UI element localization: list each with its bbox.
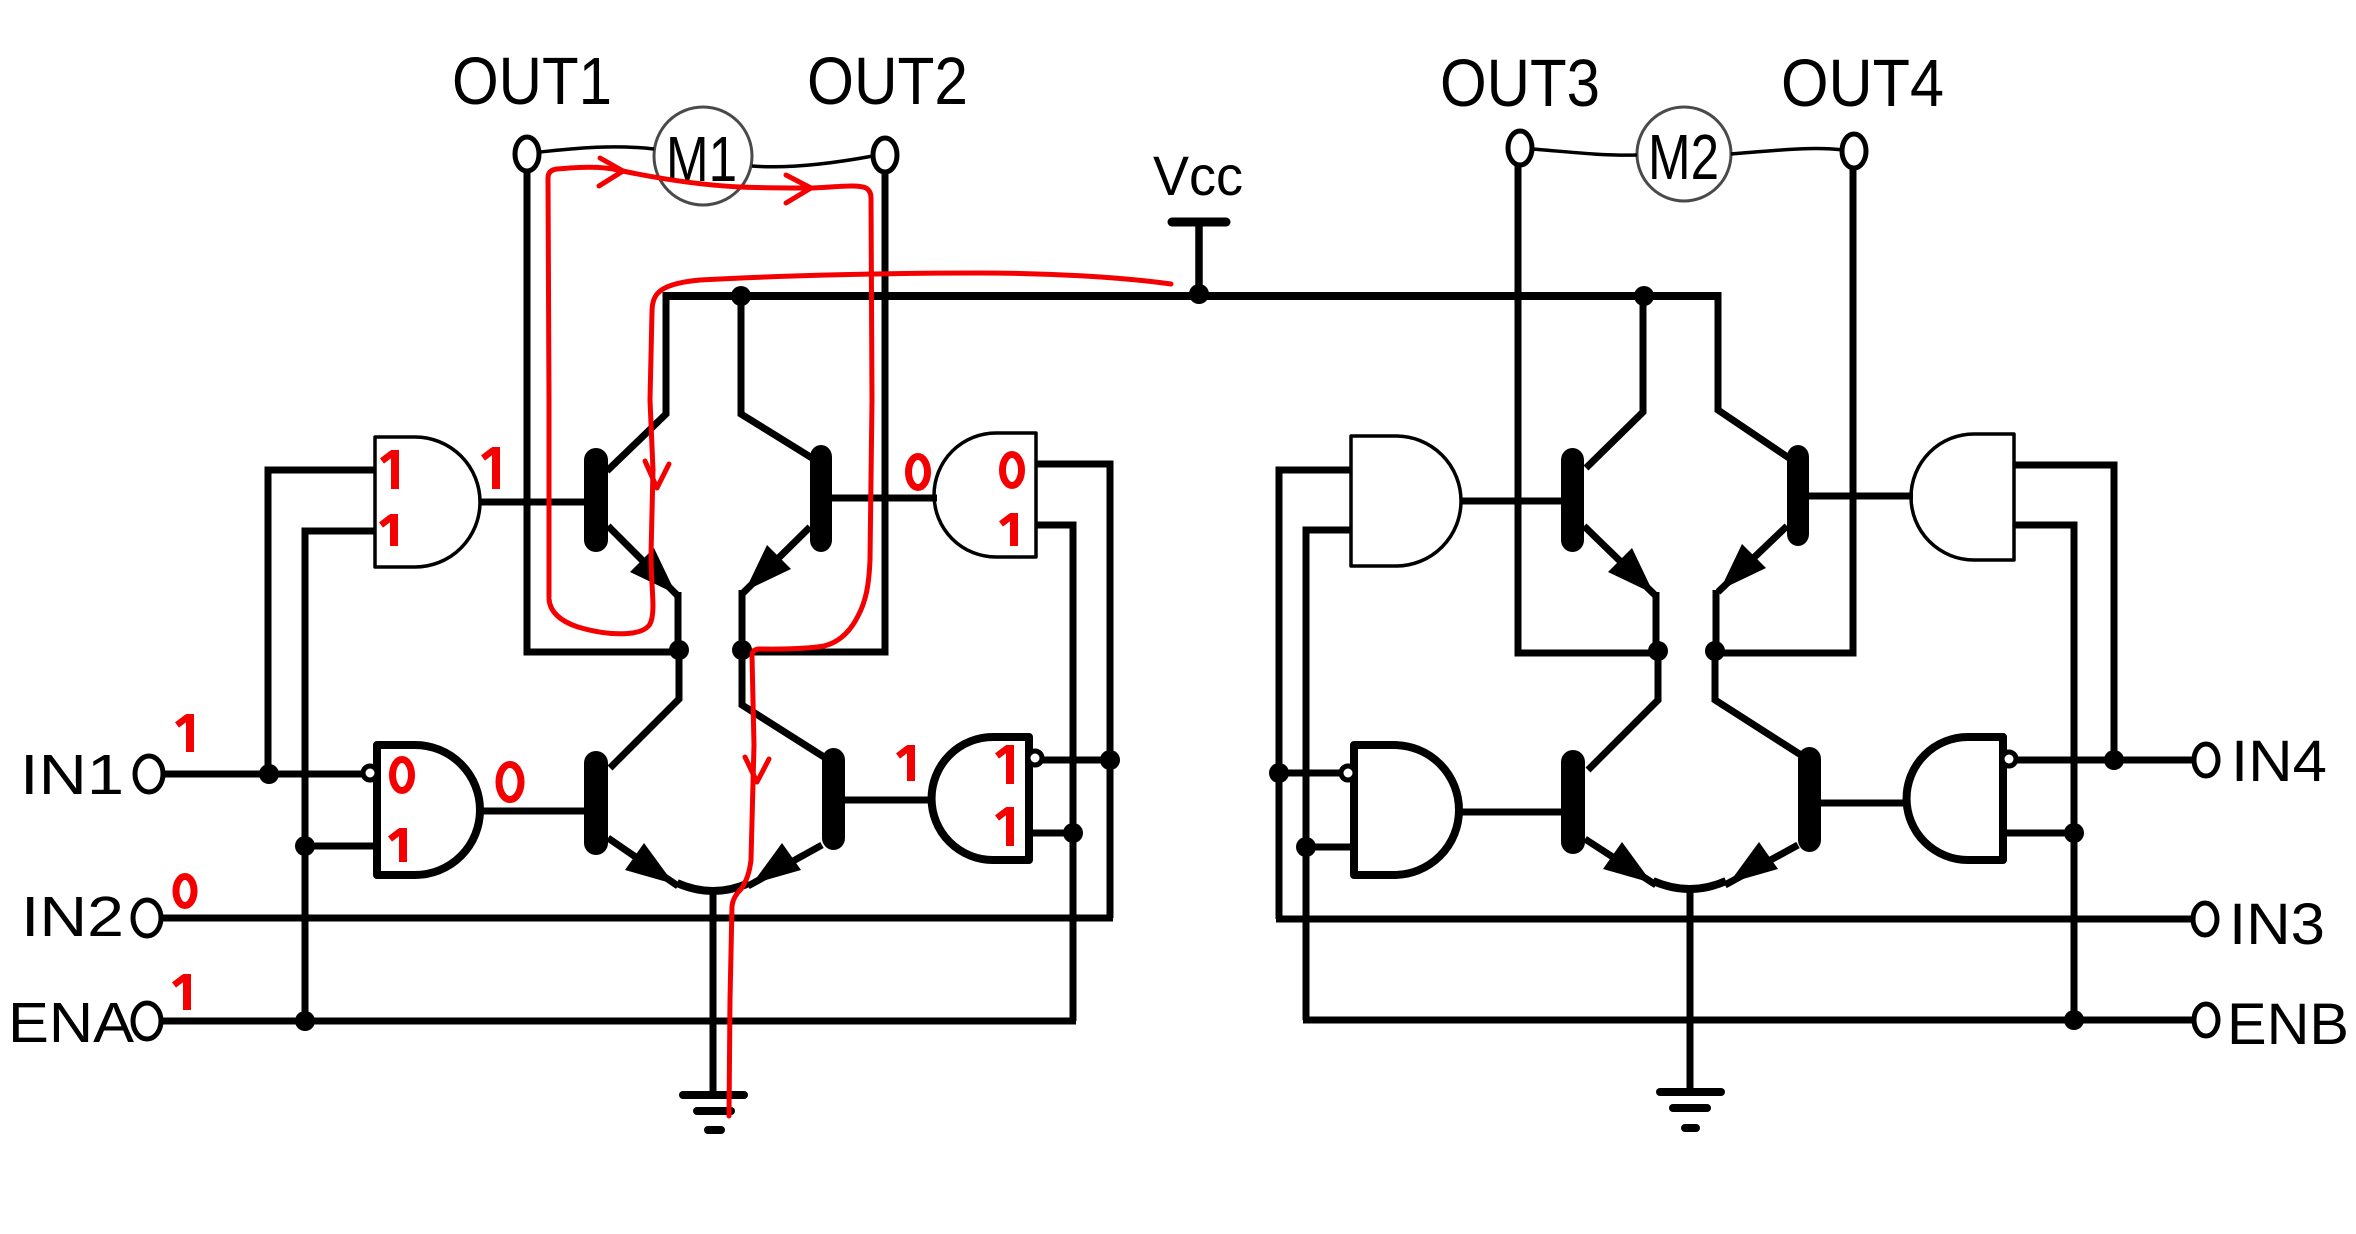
red value 1 U1 lower input [381,514,394,546]
wire M1 to OUT2 [752,156,873,167]
label IN2 [21,885,124,949]
svg-text:OUT3: OUT3 [1440,46,1600,121]
red value 1 U4 lower input [997,807,1010,846]
wire U8 bubble line [2015,757,2196,764]
transistor Q5 [1561,448,1656,653]
wire ground vertical left [710,892,717,1094]
wire Q7 collector [1588,651,1658,770]
wire Q2 base to U3 [880,495,937,502]
wire OUT2 vertical [742,171,885,652]
wire U4 output [843,797,932,804]
label IN3 [2229,892,2325,957]
wire emitter bus right [1653,881,1726,889]
terminal OUT1 [515,137,539,171]
junction rail-Vcc stem [1189,284,1209,304]
wire OUT1 vertical [527,169,682,652]
wire U5 upper input riser IN3 [1279,470,1353,919]
junction rail-Q5 collector [1634,286,1654,306]
red value 1 U1 output [483,447,496,489]
wire U7 bubble line [1276,770,1340,777]
and-gate U2 [377,745,480,875]
wire Vcc rail [666,292,1718,300]
wire U1 input ENA riser [305,531,377,1024]
label ENB [2227,992,2349,1057]
and-gate U4 [932,737,1029,860]
label OUT1 [452,44,612,119]
wire OUT3 vertical [1518,165,1661,653]
wire IN1 line [161,771,364,778]
wire U1 output [478,499,586,506]
wire U7 output [1452,809,1563,816]
wire U3 output [834,495,937,502]
wire ENB line [1303,1017,2194,1024]
ground GND1 [683,1095,744,1130]
terminal IN2 [133,900,161,936]
red arrow down mid [745,757,769,782]
wire ENA line [159,1018,1076,1025]
red value 0 U2 output [499,765,521,800]
transistor Q7 [1561,750,1656,885]
wire OUT4 vertical [1712,168,1853,653]
and-gate U5 [1351,436,1461,566]
transistor Q6 [1716,445,1853,653]
red arrow on Vcc branch [645,461,669,488]
label Vcc [1153,144,1243,207]
wire U1 input IN1 riser [268,470,377,777]
red value 1 U3 lower input [1001,513,1014,546]
junction ENA-U1 riser [295,1011,315,1031]
junction IN1-riser [259,764,279,784]
junction ENB-U8 riser [2064,1010,2084,1030]
wire IN3 line [1276,916,2193,923]
junction U8 lower tap [2064,823,2084,843]
wire emitter bus left [677,883,749,891]
terminal ENA [133,1003,161,1039]
junction U8 bubble-IN4 riser [2104,750,2124,770]
inverter bubble U8 input [2002,752,2016,766]
inverter bubble U2 input [363,766,377,780]
inverter bubble U7 input [1341,766,1355,780]
wire U5 lower input riser ENB [1306,530,1353,1020]
junction U7 bubble-IN3 riser [1269,763,1289,783]
and-gate U6 [1911,434,2014,560]
motor M2 label [1648,121,1719,193]
red value 1 U4 upper input [997,745,1010,784]
wire Q2 collector [741,292,812,458]
wire Q6 base to U6 [1847,493,1913,500]
wire U3 lower input riser ENA [1034,525,1073,1021]
terminal IN3 [2193,903,2217,935]
red arrow near OUT1 [599,158,623,186]
red value 0 U3 output [909,457,928,488]
transistor Q3 [584,751,678,886]
label OUT2 [807,44,968,119]
junction U7 lower tap [1296,837,1316,857]
wire Q3 collector [610,650,679,768]
red value 0 U3 upper input [1003,455,1022,486]
junction U2 lower tap [295,836,315,856]
svg-text:ENB: ENB [2227,992,2349,1057]
svg-text:Vcc: Vcc [1153,144,1243,207]
label IN4 [2231,729,2327,794]
label OUT4 [1781,46,1944,121]
wire OUT3 to M2 [1532,149,1637,155]
wire Q1 collector [607,292,666,471]
motor M2 circle [1637,107,1731,201]
red value 1 at IN1 [177,714,190,752]
wire U6 upper input riser IN4 [2012,465,2114,763]
red current path from Vcc [549,273,1171,634]
wire OUT1 to M1 [540,147,654,152]
red value 1 U4 output [898,745,911,781]
junction node OUT4-Q6 emitter [1705,641,1725,661]
red value 1 U1 upper input [382,450,395,489]
terminal OUT2 [873,138,897,172]
svg-text:OUT2: OUT2 [807,44,968,119]
svg-text:IN2: IN2 [21,885,124,949]
wire Q8 collector [1715,651,1801,755]
junction U4 lower tap [1063,823,1083,843]
and-gate U3 [934,433,1036,557]
terminal ENB [2194,1004,2218,1036]
wire U2 lower input [303,843,379,850]
transistor Q2 [742,445,886,653]
junction rail-Q2 collector [731,286,751,306]
svg-text:M2: M2 [1648,121,1719,193]
transistor Q1 [584,448,678,653]
junction node OUT3-Q5 emitter [1648,641,1668,661]
red value 1 at ENA [174,974,187,1010]
label ENA [8,991,134,1055]
terminal OUT4 [1842,134,1866,168]
motor M1 circle [654,107,752,205]
junction node OUT2-Q2 emitter [732,640,752,660]
terminal OUT3 [1508,131,1532,165]
power Vcc symbol [1172,222,1226,296]
red arrow under M1 [786,175,811,203]
svg-text:IN3: IN3 [2229,892,2325,957]
red value 1 U2 lower input [390,828,403,862]
red value 0 at IN2 [176,877,194,906]
ground GND2 [1660,1092,1721,1128]
junction U4 bubble-IN2 riser [1100,750,1120,770]
wire Q5 collector [1586,292,1643,468]
and-gate U7 [1354,745,1459,875]
wire U4 bubble line [1039,757,1112,764]
wire IN2 line [159,915,1113,922]
svg-text:IN4: IN4 [2231,729,2327,794]
red value 0 U2 upper input [393,760,412,791]
transistor Q4 [748,748,880,886]
wire U4 lower input [1025,830,1075,837]
motor M1 label [666,123,737,195]
wire U8 lower input [2001,830,2076,837]
transistor Q8 [1725,747,1855,885]
red current path main loop [548,167,872,1116]
wire U2 output [478,808,586,815]
svg-text:IN1: IN1 [20,743,124,807]
and-gate U1 [375,437,480,567]
wire U6 output [1807,493,1913,500]
svg-text:ENA: ENA [8,991,134,1055]
terminal IN1 [135,756,163,792]
wire ground vertical right [1687,890,1694,1091]
label IN1 [20,743,124,807]
wire U6 lower input riser ENB [2012,525,2074,1023]
label OUT3 [1440,46,1600,121]
inverter bubble U4 input [1028,751,1042,765]
wire M2 to OUT4 [1731,149,1843,154]
terminal IN4 [2194,744,2218,776]
wire U8 output [1819,800,1910,807]
svg-text:OUT1: OUT1 [452,44,612,119]
wire U7 lower input [1304,844,1356,851]
svg-text:OUT4: OUT4 [1781,46,1944,121]
wire Q4 collector [742,650,824,757]
wire U3 upper input riser IN2 [1034,464,1110,918]
junction node OUT1-Q1 emitter [669,640,689,660]
and-gate U8 [1907,737,2003,860]
wire Q6 collector [1718,292,1789,458]
wire U5 output [1454,498,1563,505]
